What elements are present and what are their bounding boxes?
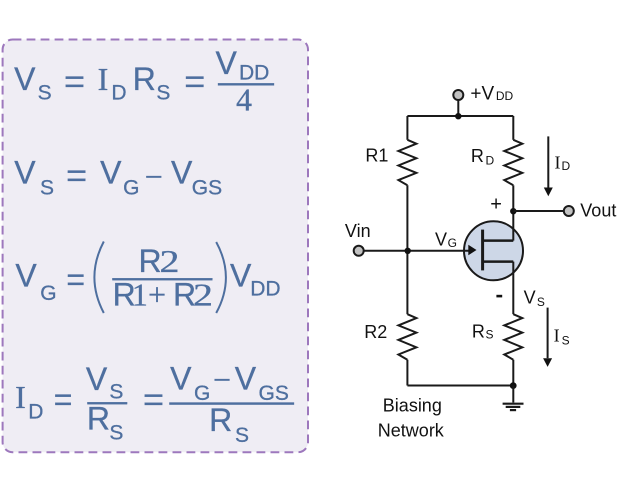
svg-text:1: 1 [132, 276, 148, 312]
arrow Id [544, 136, 553, 196]
equation 1: Vs = Id Rs = Vdd/4 [14, 45, 274, 118]
label Vout [580, 200, 616, 220]
node: top rail junction [455, 113, 461, 119]
svg-text:+V: +V [470, 83, 494, 104]
wire: left branch mid (R1 to R2) [406, 185, 408, 314]
equation 2: Vs = Vg - Vgs [14, 154, 222, 199]
svg-text:V: V [14, 154, 36, 190]
svg-text:S: S [562, 334, 570, 348]
svg-text:DD: DD [250, 278, 280, 301]
svg-text:I: I [554, 326, 560, 346]
svg-text:=: = [54, 382, 73, 418]
svg-text:V: V [230, 257, 252, 293]
svg-text:R2: R2 [364, 322, 387, 342]
wire: top rail [407, 115, 513, 117]
transistor Q1 gate arrow [468, 245, 476, 256]
svg-text:V: V [86, 361, 108, 397]
svg-text:V: V [14, 61, 36, 97]
svg-text:=: = [184, 64, 205, 100]
svg-text:I: I [555, 153, 561, 173]
wire: left branch upper lead [406, 116, 408, 140]
svg-text:2: 2 [193, 276, 213, 312]
svg-text:=: = [64, 64, 85, 100]
svg-text:=: = [66, 261, 85, 297]
svg-text:+: + [148, 276, 166, 312]
resistor R1 [398, 140, 416, 186]
wire: right branch upper lead [512, 116, 514, 140]
svg-text:Vin: Vin [345, 221, 371, 241]
svg-text:R: R [471, 146, 484, 166]
svg-text:−: − [213, 362, 231, 398]
label R1 [365, 146, 388, 166]
node: bottom rail junction [510, 382, 517, 389]
wire: drain lead [512, 185, 514, 240]
svg-text:D: D [562, 159, 571, 173]
transistor Q1 gate bar [481, 230, 484, 271]
svg-text:−: − [145, 158, 163, 194]
svg-text:V: V [524, 288, 536, 308]
resistor RS [504, 314, 522, 360]
svg-text:V: V [171, 154, 193, 190]
svg-text:Biasing: Biasing [383, 396, 442, 416]
terminal +Vdd [453, 90, 463, 100]
transistor Q1 (JFET) body [464, 221, 523, 280]
svg-text:R: R [139, 243, 162, 279]
resistor R2 [398, 314, 416, 360]
wire: left branch lower lead [406, 360, 408, 386]
svg-text:V: V [235, 361, 257, 397]
label Is [554, 326, 570, 348]
svg-text:V: V [216, 45, 238, 81]
svg-text:R: R [87, 401, 110, 437]
label Vs [524, 288, 545, 309]
resistor RD [504, 140, 522, 186]
terminal Vout [564, 206, 574, 216]
label +Vdd [470, 83, 513, 104]
label - (source polarity) [496, 295, 502, 298]
svg-text:S: S [109, 381, 123, 404]
label R2 [364, 322, 387, 342]
svg-text:V: V [100, 154, 122, 190]
label Vg [435, 229, 457, 250]
label RD [471, 146, 495, 168]
svg-text:GS: GS [259, 382, 289, 405]
svg-text:D: D [28, 400, 43, 423]
svg-text:S: S [537, 295, 545, 309]
ground [503, 386, 524, 411]
svg-text:R: R [209, 402, 232, 438]
svg-text:R1: R1 [365, 146, 388, 166]
wire: to Vout [513, 210, 563, 212]
svg-text:G: G [40, 282, 56, 305]
equation panel box [3, 40, 308, 453]
svg-text:2: 2 [160, 243, 180, 279]
svg-text:S: S [40, 177, 54, 200]
svg-text:R: R [133, 61, 156, 97]
svg-text:D: D [486, 153, 495, 167]
label Biasing Network [378, 396, 445, 441]
terminal Vin [354, 246, 364, 256]
svg-text:DD: DD [496, 89, 514, 103]
svg-text:G: G [123, 176, 139, 199]
wire: bottom rail [407, 385, 513, 387]
svg-text:Vout: Vout [580, 200, 616, 220]
svg-text:S: S [486, 328, 494, 342]
svg-text:V: V [15, 257, 37, 293]
svg-text:S: S [235, 424, 249, 447]
svg-text:V: V [170, 361, 192, 397]
arrow Is [543, 308, 552, 367]
label + (drain polarity) [490, 194, 502, 216]
svg-text:=: = [66, 157, 87, 193]
transistor Q1 drain channel [483, 239, 514, 242]
wire: source lead [512, 262, 514, 315]
svg-text:G: G [448, 236, 457, 250]
equation 3: Vg = (R2/(R1+R2)) Vdd [15, 242, 280, 314]
svg-text:=: = [143, 382, 164, 418]
node: drain / Vout junction [510, 208, 516, 214]
svg-text:S: S [109, 422, 123, 445]
wire: gate lead [364, 250, 469, 252]
label RS [472, 322, 494, 342]
node: gate / R1-R2 junction [405, 248, 411, 254]
svg-text:G: G [194, 382, 210, 405]
svg-text:4: 4 [236, 82, 252, 118]
wire: +Vdd stem [457, 101, 459, 117]
svg-text:GS: GS [192, 176, 222, 199]
svg-text:S: S [156, 82, 170, 105]
svg-text:I: I [98, 61, 109, 97]
svg-text:V: V [435, 229, 447, 249]
wire: Rs lower lead [512, 360, 514, 386]
transistor Q1 source channel [483, 260, 514, 263]
svg-text:I: I [15, 379, 26, 415]
svg-text:Network: Network [378, 421, 445, 441]
label Id [555, 153, 571, 174]
label Vin [345, 221, 371, 241]
svg-text:+: + [490, 194, 502, 216]
svg-text:R: R [472, 322, 485, 342]
svg-text:D: D [111, 82, 126, 105]
equation 4: Id = Vs/Rs = (Vg-Vgs)/Rs [15, 361, 294, 448]
svg-text:S: S [38, 82, 52, 105]
